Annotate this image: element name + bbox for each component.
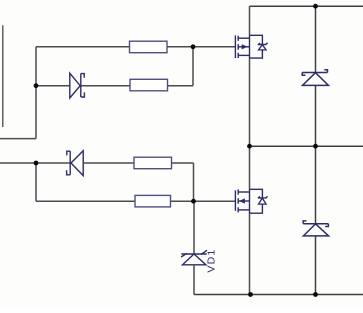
wire: upper vertical bus x=36 <box>35 47 37 139</box>
body stub <box>238 46 249 48</box>
junction node (315.5,294.5) <box>313 292 318 297</box>
wire: Q1 source down to mid rail <box>249 58 251 146</box>
wire: R1 to node (193,47) <box>167 46 193 48</box>
mosfet Q1 body arrow <box>242 44 248 49</box>
source stub <box>238 209 249 211</box>
junction node (193,46.8) <box>191 44 196 49</box>
body diode loop <box>250 189 263 213</box>
mosfet Q1 body diode triangle <box>259 45 267 50</box>
wire: row D bus to R4 <box>36 200 135 202</box>
source stub <box>238 54 249 56</box>
wire: R2 to right vertical <box>168 85 194 87</box>
body stub <box>238 200 249 202</box>
mosfet Q2 <box>235 189 267 213</box>
wire: right column lower segment <box>315 236 317 295</box>
wire: VD1 branch down from node (193.5,201) <box>193 201 195 254</box>
wire: gate lead Q1 <box>193 46 235 48</box>
junction node (315.5,146.2) <box>313 144 318 149</box>
wire: mid rail <box>250 145 363 147</box>
body diode loop <box>250 35 263 58</box>
diode VD1 (TVS pointing up) <box>181 250 207 265</box>
junction node (315.5,6.2) <box>313 4 318 9</box>
body diode bar + hooks <box>258 196 268 198</box>
wire: vertical joining row B to node (193,47) <box>192 47 194 86</box>
wire: input A horizontal to bus <box>0 138 36 140</box>
resistor R3 <box>134 157 172 169</box>
zener diode (lower, pointing left) <box>67 151 84 176</box>
wire: R3 to right vertical <box>172 162 194 164</box>
wire: left clipped vertical stub <box>2 25 4 127</box>
junction node (249.5,146.2) <box>247 144 252 149</box>
gate bar <box>234 190 236 211</box>
wire: top rail <box>250 5 363 7</box>
diode D2 (lower TVS pointing up) <box>303 221 328 236</box>
wire: R4 to node (193.5,201) <box>171 200 194 202</box>
wire: vertical joining row C to node (193.5,201) <box>193 163 195 201</box>
wire: zener to R2 <box>82 85 131 87</box>
drain stub <box>238 191 249 193</box>
channel segments <box>237 189 239 212</box>
junction node (36,163) <box>34 161 39 166</box>
main vertical <box>249 189 251 213</box>
mosfet Q1 <box>235 35 267 58</box>
resistor R4 <box>135 195 171 207</box>
diode D1 (upper TVS pointing up) <box>302 70 328 86</box>
wire: right column upper segment <box>315 6 317 72</box>
zener diode (upper, pointing right) <box>70 73 85 98</box>
wire: Q2 source down to bottom rail <box>249 213 251 294</box>
junction node (193.5,201.2) <box>191 199 196 204</box>
resistor R1 <box>130 41 168 53</box>
main vertical <box>249 35 251 58</box>
mosfet Q2 body diode triangle <box>259 198 267 204</box>
wire: Q2 drain from mid rail <box>249 146 251 189</box>
channel segments <box>237 36 239 58</box>
drain stub <box>238 37 249 39</box>
wire: bottom rail <box>194 294 363 296</box>
wire: row C input from left edge <box>0 162 70 164</box>
wire: VD1 to bottom rail <box>193 265 195 295</box>
wire: Q1 drain from top rail <box>249 6 251 35</box>
wire: row B from bus dot to zener VD2 <box>36 85 70 87</box>
wire: gate lead Q2 <box>194 200 236 202</box>
junction node (36,85.7) <box>34 83 39 88</box>
svg-text:VD1: VD1 <box>206 249 218 273</box>
body diode bar + hooks <box>258 43 268 45</box>
mosfet Q2 body arrow <box>239 198 245 203</box>
wire: row A (gate row Q1) bus to R1 <box>36 46 130 48</box>
resistor R2 <box>130 79 168 91</box>
gate bar <box>234 35 236 58</box>
wire: right column between diodes <box>315 85 317 223</box>
wire: zener to R3 <box>83 162 134 164</box>
junction node (250.5,294.5) <box>248 292 253 297</box>
wire: lower bus vertical from dot (36,163) <box>35 163 37 201</box>
